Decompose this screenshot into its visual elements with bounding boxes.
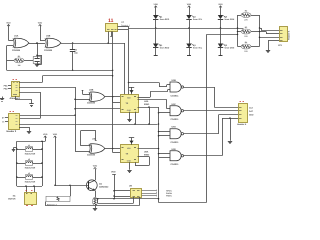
svg-text:U5A: U5A [172,126,177,129]
svg-text:R1: R1 [18,55,20,58]
svg-text:L2: L2 [28,158,30,161]
svg-text:Header 4: Header 4 [237,123,247,126]
svg-text:L1: L1 [28,144,30,147]
svg-text:270: 270 [244,50,247,53]
svg-text:U4A: U4A [144,100,149,103]
svg-text:Header 2: Header 2 [7,130,17,133]
svg-text:VDD: VDD [43,133,48,136]
svg-text:INDUCTOR: INDUCTOR [25,152,36,155]
svg-text:270: 270 [244,35,247,38]
svg-text:U6A: U6A [144,150,149,153]
svg-text:555D: 555D [144,103,150,106]
svg-text:U1A: U1A [14,35,19,38]
svg-text:5mm YEL: 5mm YEL [193,18,203,21]
svg-text:CD4011: CD4011 [171,163,180,166]
svg-text:VDD: VDD [111,170,116,173]
svg-text:CD4069: CD4069 [44,49,53,52]
svg-text:VDD: VDD [53,133,58,136]
svg-text:U3B: U3B [89,88,94,91]
svg-text:VDD: VDD [187,3,192,6]
svg-text:Digital 1: Digital 1 [121,24,131,27]
svg-text:GND: GND [127,159,132,162]
svg-text:U3D: U3D [92,138,97,141]
svg-text:U5C: U5C [172,103,177,106]
svg-text:VDD: VDD [218,3,223,6]
svg-text:VDD: VDD [6,22,11,25]
svg-text:GND: GND [249,114,254,117]
svg-text:CD4011: CD4011 [171,141,180,144]
svg-text:5mm GRN: 5mm GRN [225,18,235,21]
svg-text:U1B: U1B [46,35,51,38]
svg-text:VDD: VDD [154,3,159,6]
svg-text:CLK: CLK [249,106,254,109]
svg-text:MOTOR: MOTOR [8,198,16,201]
svg-text:INDUCTOR: INDUCTOR [25,180,36,183]
svg-text:CD4011: CD4011 [171,94,180,97]
svg-text:CD4030: CD4030 [87,101,96,104]
svg-text:GND: GND [127,109,132,112]
svg-text:L3: L3 [28,172,30,175]
svg-text:11: 11 [108,18,114,24]
svg-text:U5B: U5B [172,79,177,82]
svg-text:270: 270 [244,19,247,22]
svg-text:CD4011: CD4011 [171,118,180,121]
svg-text:R2: R2 [245,10,247,13]
svg-text:1M: 1M [18,64,21,67]
svg-text:555D: 555D [144,153,150,156]
svg-text:Q2N2222: Q2N2222 [99,185,109,188]
svg-text:D-: D- [2,120,4,123]
svg-text:Header 4: Header 4 [288,30,291,40]
svg-text:5mm RED: 5mm RED [160,47,170,50]
svg-text:5mm YEL: 5mm YEL [193,47,203,50]
svg-text:VDD: VDD [93,165,98,168]
svg-text:5mm GRN: 5mm GRN [225,47,235,50]
svg-text:CD4030: CD4030 [87,154,96,157]
svg-text:VDD: VDD [38,22,43,25]
svg-text:INDUCTOR: INDUCTOR [25,166,36,169]
svg-text:CD4069: CD4069 [12,49,21,52]
svg-text:5mm RED: 5mm RED [160,18,170,21]
svg-text:PR/0N: PR/0N [166,194,172,197]
svg-text:U5D: U5D [172,148,177,151]
svg-text:R3: R3 [245,26,247,29]
